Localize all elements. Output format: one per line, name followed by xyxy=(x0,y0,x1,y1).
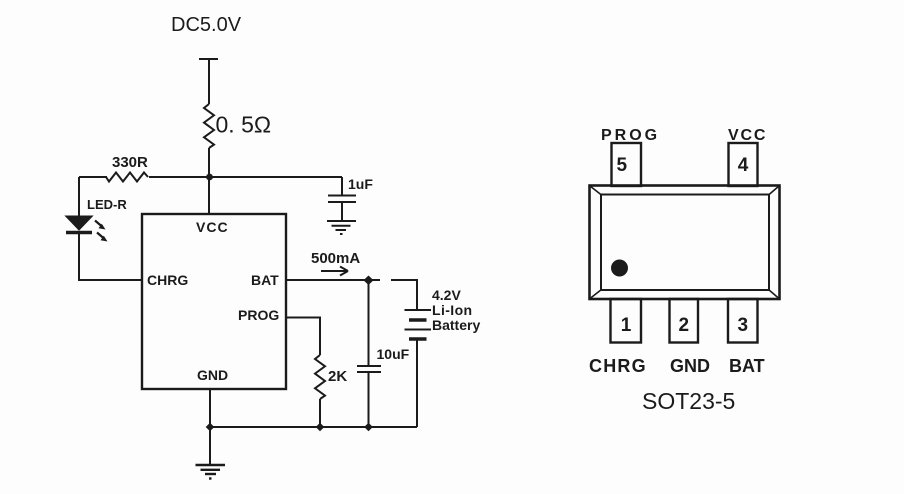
svg-text:CHRG: CHRG xyxy=(147,272,188,288)
svg-text:4.2V: 4.2V xyxy=(432,287,461,303)
svg-text:500mA: 500mA xyxy=(311,250,360,267)
svg-text:Battery: Battery xyxy=(432,317,480,333)
svg-text:CHRG: CHRG xyxy=(589,356,647,376)
ground symbol (main) xyxy=(196,465,226,479)
wire C1 to ground xyxy=(341,202,343,221)
svg-text:2K: 2K xyxy=(328,368,347,385)
LED D1 LED-R xyxy=(66,216,108,242)
pin 4 xyxy=(729,143,758,186)
label 500mA current arrow xyxy=(321,267,348,276)
resistor R1 0.5ohm xyxy=(204,104,214,148)
wire bottom ground rail xyxy=(210,426,417,428)
wire PROG pin xyxy=(286,318,320,356)
wire C2 bottom xyxy=(368,372,370,427)
svg-text:1: 1 xyxy=(621,315,632,336)
svg-text:4: 4 xyxy=(738,155,749,176)
svg-text:PROG: PROG xyxy=(601,127,660,144)
pin 1 xyxy=(611,299,642,343)
pin 5 xyxy=(612,143,642,186)
svg-text:0. 5Ω: 0. 5Ω xyxy=(216,112,272,138)
wire LED cathode to CHRG xyxy=(78,234,80,281)
svg-text:GND: GND xyxy=(197,367,228,383)
svg-text:PROG: PROG xyxy=(238,307,279,323)
battery BT1 xyxy=(405,310,432,339)
wire R1 to VCC node xyxy=(208,148,210,177)
capacitor C1 1uF xyxy=(328,195,356,197)
wire 1uF drop xyxy=(341,177,343,195)
svg-text:DC5.0V: DC5.0V xyxy=(171,14,242,36)
resistor R3 2K xyxy=(315,355,325,399)
svg-text:10uF: 10uF xyxy=(377,346,410,362)
package body SOT23-5 xyxy=(590,186,780,300)
wire LED anode drop xyxy=(78,177,80,217)
ground symbol (C1) xyxy=(327,221,356,234)
wire supply to R1 xyxy=(208,59,210,104)
wire ground stem xyxy=(209,427,211,465)
pin 2 xyxy=(670,299,699,343)
node junction VCC rail xyxy=(206,174,213,181)
wire battery negative to bottom rail xyxy=(416,340,418,427)
resistor R2 330R xyxy=(106,173,148,182)
wire BAT to battery corner xyxy=(391,280,417,310)
svg-text:1uF: 1uF xyxy=(348,176,373,192)
node junction BAT (diamond) xyxy=(364,276,374,286)
wire GND pin xyxy=(209,389,211,427)
svg-text:VCC: VCC xyxy=(196,219,229,235)
svg-text:VCC: VCC xyxy=(728,127,767,144)
wire CHRG pin xyxy=(78,279,142,281)
wire VCC rail xyxy=(79,176,107,178)
wire VCC rail right xyxy=(149,176,342,178)
svg-text:2: 2 xyxy=(679,315,690,336)
svg-text:BAT: BAT xyxy=(251,272,279,288)
svg-text:330R: 330R xyxy=(112,154,148,171)
IC U1 charger block xyxy=(142,214,286,389)
capacitor C2 10uF xyxy=(357,366,381,372)
pin 3 xyxy=(728,299,758,343)
wire C2 branch from BAT node xyxy=(368,280,370,366)
svg-text:GND: GND xyxy=(670,356,710,376)
svg-text:LED-R: LED-R xyxy=(87,197,127,212)
svg-text:5: 5 xyxy=(617,155,628,176)
svg-text:BAT: BAT xyxy=(729,356,765,376)
wire VCC pin xyxy=(208,177,210,214)
node DC5.0V supply terminal xyxy=(199,58,218,60)
wire BAT pin xyxy=(286,279,380,281)
wire R3 to bottom rail xyxy=(319,399,321,427)
node junction R3 bottom xyxy=(316,423,325,432)
pin 1 marker dot xyxy=(611,260,628,277)
svg-text:Li-Ion: Li-Ion xyxy=(432,302,473,318)
node junction C2 bottom xyxy=(364,423,373,432)
svg-text:3: 3 xyxy=(738,315,749,336)
svg-text:SOT23-5: SOT23-5 xyxy=(642,388,735,414)
node junction GND rail xyxy=(206,423,215,432)
